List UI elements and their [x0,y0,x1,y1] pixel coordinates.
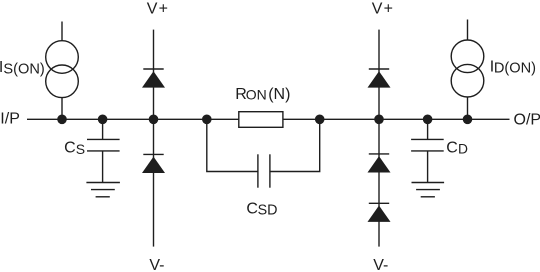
svg-text:C: C [246,200,258,217]
svg-text:D: D [458,142,468,157]
svg-text:C: C [446,139,458,156]
svg-text:V+: V+ [147,0,169,17]
svg-text:ON: ON [246,87,267,103]
svg-text:V+: V+ [372,0,394,17]
svg-text:S: S [76,141,85,157]
svg-text:I/P: I/P [0,111,20,128]
svg-text:C: C [64,139,76,156]
svg-text:S(ON): S(ON) [3,61,44,77]
svg-text:O/P: O/P [514,111,540,128]
svg-text:V-: V- [149,257,164,272]
svg-text:V-: V- [373,257,388,272]
svg-text:SD: SD [258,203,278,219]
svg-text:D(ON): D(ON) [494,61,536,77]
svg-text:(N): (N) [268,86,290,103]
